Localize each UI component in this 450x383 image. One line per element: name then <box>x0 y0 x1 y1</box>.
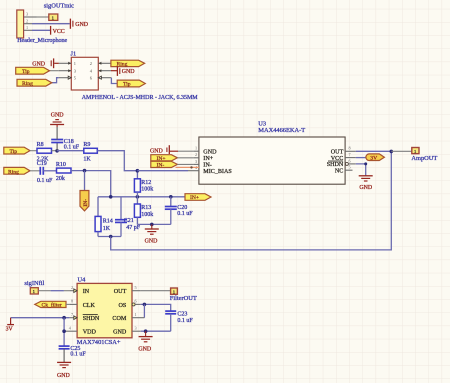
pin 1 U4 COM <box>132 317 144 319</box>
svg-text:GND: GND <box>145 238 159 244</box>
svg-text:0.1 uF: 0.1 uF <box>70 352 86 358</box>
wire <box>111 78 117 84</box>
node junction <box>136 195 140 199</box>
svg-text:sigINfil: sigINfil <box>24 280 44 287</box>
pin 8 U4 CLK <box>69 303 77 305</box>
svg-text:Ring: Ring <box>22 81 33 87</box>
resistor R13 <box>134 197 153 225</box>
capacitor C20 <box>165 197 193 225</box>
svg-text:3: 3 <box>195 159 197 164</box>
pin 3 U4 GND <box>132 330 141 332</box>
svg-text:Ring: Ring <box>117 62 128 68</box>
node junction <box>136 169 140 173</box>
svg-text:CLK: CLK <box>83 303 96 309</box>
svg-text:VCC: VCC <box>53 29 65 35</box>
pin 6 J1 <box>98 77 111 79</box>
svg-text:IN+: IN+ <box>190 195 199 201</box>
testpoint sigOUTmic <box>49 14 58 20</box>
resistor R12 <box>134 171 153 197</box>
svg-text:R14: R14 <box>103 219 113 225</box>
power port GND (above C18) <box>50 113 64 127</box>
pin 7 U3 VCC <box>345 157 356 159</box>
svg-text:2: 2 <box>71 285 73 290</box>
node junction <box>150 223 154 227</box>
svg-text:MAX7401CSA+: MAX7401CSA+ <box>77 339 121 346</box>
pin 1 U3 <box>194 150 199 152</box>
wire MIC_BIAS <box>137 170 188 172</box>
svg-text:R8: R8 <box>37 142 44 148</box>
pin 1 J1 <box>59 62 72 64</box>
svg-text:7: 7 <box>71 312 73 317</box>
svg-text:OUT: OUT <box>331 150 344 156</box>
wire <box>43 170 56 172</box>
svg-text:IN+: IN+ <box>203 156 213 162</box>
node junction <box>169 195 173 199</box>
op-amp U3 MAX4466EKA-T <box>199 120 345 184</box>
svg-text:100k: 100k <box>141 187 153 193</box>
svg-text:7: 7 <box>349 152 351 157</box>
capacitor C23 <box>165 311 193 331</box>
svg-text:0.1 uF: 0.1 uF <box>64 145 80 151</box>
svg-text:Ck_filter: Ck_filter <box>42 302 62 309</box>
node junction <box>390 150 394 154</box>
resistor R10 <box>56 162 71 182</box>
svg-text:IN-: IN- <box>203 162 211 168</box>
wire <box>178 150 194 152</box>
pin 4 U3 <box>188 170 199 172</box>
ERC marker (orange) <box>176 166 200 168</box>
svg-text:1: 1 <box>26 25 28 30</box>
svg-text:1K: 1K <box>103 226 111 232</box>
svg-text:GND: GND <box>203 149 217 155</box>
svg-text:Tip: Tip <box>123 82 131 88</box>
wire <box>84 171 86 191</box>
svg-text:C21: C21 <box>124 218 134 224</box>
wire <box>141 290 171 292</box>
svg-text:5: 5 <box>349 165 351 170</box>
node junction <box>83 169 87 173</box>
svg-text:1: 1 <box>74 61 76 66</box>
wire <box>141 330 171 332</box>
svg-text:6: 6 <box>135 299 137 304</box>
svg-text:AMPHENOL - ACJS-MHDR - JACK, 6: AMPHENOL - ACJS-MHDR - JACK, 6.35MM <box>82 95 199 101</box>
testpoint FilterOUT <box>171 288 178 294</box>
port IN- (vertical) <box>80 191 89 211</box>
power port VCC <box>51 26 65 35</box>
wire <box>356 150 392 152</box>
svg-text:2: 2 <box>26 18 28 23</box>
ground GND (C25) <box>57 362 71 379</box>
svg-text:GND: GND <box>32 62 46 68</box>
pin 1 of header <box>24 29 32 31</box>
svg-text:Ring: Ring <box>8 169 19 175</box>
svg-text:3V: 3V <box>370 155 377 161</box>
pin 2 U4 IN <box>69 290 77 292</box>
wire <box>30 150 37 152</box>
svg-text:1: 1 <box>195 146 197 151</box>
svg-text:0.1 uF: 0.1 uF <box>177 318 193 324</box>
node junction <box>109 235 113 239</box>
testpoint sigINfil <box>30 288 38 294</box>
svg-text:8: 8 <box>71 299 73 304</box>
svg-text:sigOUTmic: sigOUTmic <box>44 3 74 10</box>
node junction <box>143 303 147 307</box>
capacitor C25 <box>59 346 87 362</box>
svg-text:GND: GND <box>75 22 89 28</box>
svg-text:C19: C19 <box>37 161 47 167</box>
pin 2 of header <box>24 23 32 25</box>
svg-text:GND: GND <box>359 185 373 191</box>
pin 7 U4 SHDN <box>69 317 77 319</box>
node junction <box>144 329 148 333</box>
svg-text:2: 2 <box>195 152 197 157</box>
svg-text:3: 3 <box>135 325 137 330</box>
wire <box>177 163 193 165</box>
node junction <box>62 316 66 320</box>
wire <box>137 223 170 225</box>
svg-text:IN: IN <box>83 289 90 295</box>
wire <box>52 150 58 152</box>
svg-text:IN-: IN- <box>157 163 165 169</box>
svg-text:0.1 uF: 0.1 uF <box>177 211 193 217</box>
filter U4 MAX7401CSA+ <box>77 277 132 346</box>
svg-text:R9: R9 <box>83 142 90 148</box>
svg-text:IN-: IN- <box>83 199 89 207</box>
svg-text:R10: R10 <box>56 162 66 168</box>
svg-text:GND: GND <box>150 149 164 155</box>
pin 2 U3 <box>194 157 199 159</box>
pin 3 of header <box>24 16 37 18</box>
power port 3V (down) <box>6 318 14 333</box>
ground GND (U4) <box>138 331 152 352</box>
port Ring (input) <box>4 167 30 175</box>
testpoint AmpOUT <box>412 148 419 154</box>
wire <box>32 29 50 31</box>
node junction <box>55 149 59 153</box>
svg-text:C23: C23 <box>177 312 187 318</box>
wire feedback <box>111 152 392 250</box>
svg-text:100k: 100k <box>141 212 153 218</box>
svg-text:GND: GND <box>122 69 136 75</box>
svg-text:47 pF: 47 pF <box>126 225 141 231</box>
node junction <box>109 195 113 199</box>
svg-text:MAX4466EKA-T: MAX4466EKA-T <box>258 127 305 134</box>
wire rail bottom <box>98 236 121 238</box>
ground GND (below R13) <box>145 224 159 244</box>
svg-text:3V: 3V <box>6 327 14 333</box>
svg-text:8: 8 <box>349 146 351 151</box>
resistor R8 <box>37 142 52 163</box>
svg-text:GND: GND <box>113 330 127 336</box>
capacitor C21 <box>115 197 141 237</box>
port IN+ (U3) <box>151 155 178 162</box>
svg-text:MIC_BIAS: MIC_BIAS <box>203 169 232 175</box>
power port 3V (U3) <box>366 154 385 162</box>
svg-text:NC: NC <box>335 168 343 174</box>
wire <box>57 150 84 152</box>
resistor R9 <box>83 142 97 162</box>
port Ring (J1 right) <box>111 60 145 67</box>
wire <box>38 290 50 292</box>
connector P? Header_Microphone <box>17 10 68 44</box>
wire <box>66 303 69 305</box>
pin 4 J1 <box>98 70 111 72</box>
pin 6 U4 OS <box>132 303 135 306</box>
pin 3 J1 <box>59 70 72 72</box>
power port GND (J1 left) <box>32 58 59 68</box>
wire <box>32 23 70 25</box>
wire <box>356 157 366 159</box>
svg-text:Header_Microphone: Header_Microphone <box>17 38 67 44</box>
wire <box>11 317 70 319</box>
wire <box>50 70 59 72</box>
pin 3 U3 <box>194 163 199 165</box>
resistor R14 <box>95 197 113 237</box>
pin 2 J1 <box>98 62 111 64</box>
wire <box>37 16 49 18</box>
svg-text:1: 1 <box>135 312 137 317</box>
port Tip (J1 left) <box>16 67 50 75</box>
power port GND (J1 right) <box>111 66 135 76</box>
wire <box>63 318 65 346</box>
svg-text:1K: 1K <box>83 156 91 162</box>
wire <box>52 78 59 83</box>
wire <box>97 151 137 171</box>
svg-text:GND: GND <box>51 113 65 119</box>
svg-text:Tip: Tip <box>10 149 18 155</box>
svg-text:Tip: Tip <box>22 69 30 75</box>
svg-text:6: 6 <box>349 158 351 163</box>
svg-text:U4: U4 <box>78 277 87 284</box>
pin 8 U3 OUT <box>345 150 356 152</box>
svg-text:SHDN: SHDN <box>83 316 100 322</box>
svg-text:0.1 uF: 0.1 uF <box>37 178 53 184</box>
port Tip (J1 right) <box>117 80 145 88</box>
capacitor C18 <box>51 127 80 151</box>
pin 5 U4 OUT <box>132 290 141 292</box>
svg-text:COM: COM <box>112 316 126 322</box>
wire <box>143 304 145 317</box>
node junction <box>62 329 66 333</box>
svg-text:VDD: VDD <box>83 330 97 336</box>
svg-text:FilterOUT: FilterOUT <box>170 295 197 302</box>
svg-text:SHDN: SHDN <box>327 162 344 168</box>
svg-text:GND: GND <box>138 346 152 352</box>
svg-text:OS: OS <box>119 303 127 309</box>
ground GND (U3 SHDN) <box>359 176 373 191</box>
pin 6 U3 SHDN <box>345 162 348 165</box>
capacitor C19 <box>37 161 53 184</box>
connector J1 <box>71 50 99 90</box>
svg-text:OUT: OUT <box>114 289 127 295</box>
svg-text:GND: GND <box>57 373 71 379</box>
svg-text:5: 5 <box>135 285 137 290</box>
svg-text:R13: R13 <box>141 205 151 211</box>
svg-text:3: 3 <box>26 12 28 17</box>
pin 5 U3 NC <box>345 169 352 171</box>
wire <box>30 170 40 172</box>
port Ring (J1 left) <box>17 79 52 87</box>
port Tip (input) <box>4 147 30 155</box>
port IN- (U3) <box>151 161 178 168</box>
pin 5 J1 <box>59 77 72 79</box>
power port GND (U3 left) <box>150 145 178 155</box>
wire <box>177 157 193 159</box>
power port GND (header) <box>70 19 88 29</box>
wire <box>356 164 366 176</box>
wire <box>391 150 412 152</box>
svg-text:2: 2 <box>90 61 92 66</box>
svg-text:R12: R12 <box>141 180 151 186</box>
svg-text:J1: J1 <box>71 50 77 57</box>
pin 4 U4 VDD <box>64 330 77 332</box>
svg-text:AmpOUT: AmpOUT <box>411 155 437 162</box>
wire <box>71 171 111 197</box>
wire <box>141 304 171 311</box>
port Ck_filter <box>35 301 66 308</box>
port IN+ (lower) <box>185 194 211 202</box>
svg-text:20k: 20k <box>56 176 65 182</box>
wire rail <box>98 196 185 198</box>
